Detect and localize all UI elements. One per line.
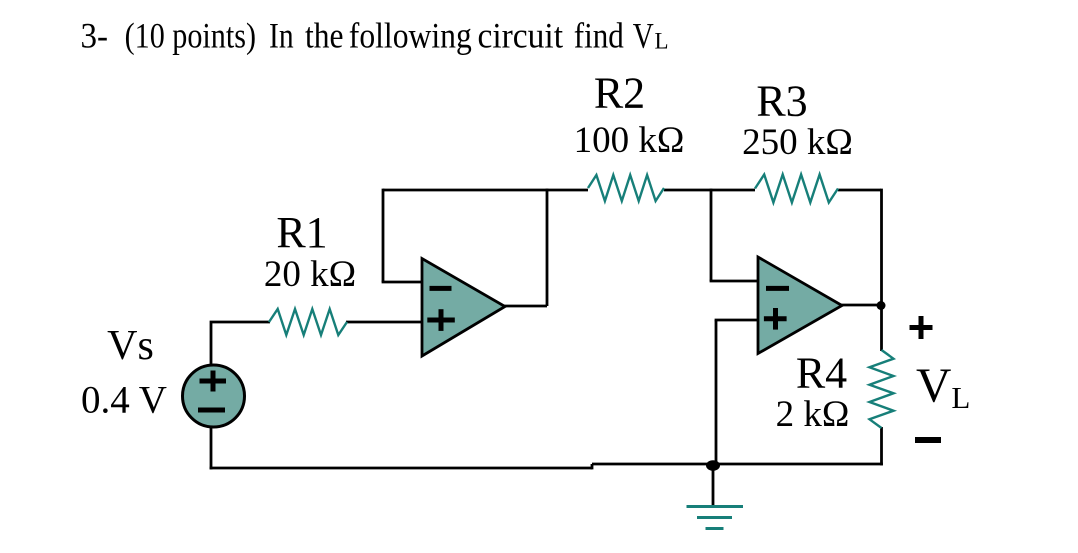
wire: Vs top to R1 left <box>211 322 270 364</box>
resistor R1 zigzag <box>269 309 347 335</box>
wire: bottom bus step jog <box>591 464 594 469</box>
op-amp U2 non-inverting pin plus <box>764 308 787 330</box>
op-amp U1 inverting pin minus <box>430 286 452 291</box>
junction node: ground node dot <box>706 460 720 471</box>
ground symbol <box>687 507 744 529</box>
svg-text:R1: R1 <box>276 208 327 257</box>
wire: U2 inverting input horizontal <box>710 280 759 283</box>
svg-text:250 kΩ: 250 kΩ <box>742 122 853 163</box>
svg-text:find: find <box>574 16 624 56</box>
op-amp U1 triangle <box>422 259 505 357</box>
wire: U1 inverting input horizontal <box>382 281 424 284</box>
wire: U1 output vertical riser to top bus <box>546 189 549 306</box>
wire: U2 non-inverting input down to ground node <box>715 320 718 464</box>
wire: output node down to R4 top <box>880 305 883 351</box>
op-amp U2 inverting pin minus <box>766 286 789 291</box>
svg-text:V: V <box>633 16 654 56</box>
wire: U2 non-inverting input horizontal <box>715 319 759 322</box>
wire: mid vertical from top bus to U2 inverting input <box>710 189 713 281</box>
op-amp U1 non-inverting pin plus <box>427 309 455 331</box>
wire: top bus right of R3 to right corner <box>838 189 881 192</box>
svg-text:following: following <box>349 16 472 56</box>
svg-text:0.4 V: 0.4 V <box>81 378 167 421</box>
label plus polarity of VL <box>910 316 933 339</box>
wire: Vs bottom down to bottom bus <box>210 428 213 469</box>
svg-text:2 kΩ: 2 kΩ <box>776 394 850 435</box>
junction node: U2 output node dot <box>877 301 886 310</box>
wire: feedback vertical to U1 inverting input <box>382 189 385 282</box>
svg-text:3-: 3- <box>81 16 109 56</box>
wire: R4 bottom down to bottom bus <box>880 427 883 465</box>
op-amp U2 triangle <box>758 257 842 354</box>
wire: right vertical from top bus down to output node <box>880 189 883 306</box>
svg-text:100 kΩ: 100 kΩ <box>574 120 685 161</box>
svg-text:L: L <box>655 29 669 54</box>
wire: R1 right to U1 non-inverting input <box>346 321 424 324</box>
resistor R3 zigzag <box>755 175 838 203</box>
svg-text:20 kΩ: 20 kΩ <box>264 254 356 295</box>
svg-text:In: In <box>269 16 294 56</box>
wire: U2 output to output node <box>841 304 883 307</box>
wire: top feedback/output bus y=190 left segment <box>383 189 588 192</box>
svg-text:the: the <box>305 16 344 56</box>
svg-text:R3: R3 <box>756 77 807 126</box>
wire: bottom bus left segment <box>210 467 592 470</box>
voltage source Vs circle <box>183 365 245 427</box>
svg-text:Vs: Vs <box>107 323 154 369</box>
svg-text:VL: VL <box>916 358 970 416</box>
title text <box>81 16 655 56</box>
voltage source plus sign <box>200 371 227 392</box>
svg-text:R2: R2 <box>594 69 645 118</box>
svg-text:circuit: circuit <box>478 16 564 56</box>
wire: top bus between R2 and R3 <box>664 189 755 192</box>
voltage source minus sign <box>198 408 225 413</box>
label minus polarity of VL <box>915 437 941 443</box>
resistor R2 zigzag <box>588 175 664 201</box>
svg-text:R4: R4 <box>796 348 847 397</box>
wire: ground stub below ground node <box>712 464 715 505</box>
wire: U1 output to vertical riser <box>503 305 547 308</box>
svg-text:(10 points): (10 points) <box>125 16 256 56</box>
resistor R4 zigzag (vertical) <box>870 350 894 428</box>
wire: bottom bus right segment <box>592 463 883 466</box>
